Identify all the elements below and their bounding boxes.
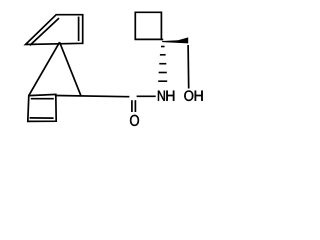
- bond R2 corner to carbonyl C: [56, 96, 129, 97]
- double bond inner line R1 right edge: [78, 17, 80, 41]
- double bond inner line R2 bottom: [30, 117, 54, 119]
- hashed wedge bond (stereocenter to NH), 5 dashes: [161, 46, 165, 48]
- bond carbonyl C to N: [137, 95, 156, 97]
- bond CH2 to OH: [187, 45, 190, 89]
- wedge bond (stereocenter to CH2OH): [162, 37, 188, 43]
- ring R1 (skewed cyclobutadiene, top-left): [26, 15, 83, 45]
- carbonyl C=O double bond: [131, 100, 133, 112]
- label O of OH: [184, 90, 193, 100]
- cyclopropane triangle right side: [60, 42, 81, 96]
- label O carbonyl: [130, 115, 139, 126]
- double bond inner line R2 top: [31, 98, 54, 100]
- ring R3 (cyclobutane square, top-right): [135, 12, 161, 39]
- double bond inner line R1 left diagonal: [30, 18, 59, 45]
- ring R3 bottom edge overshoot at stereocenter corner: [161, 38, 163, 40]
- ring R2 (cyclobutadiene square, bottom-left): [28, 94, 56, 121]
- label H of NH: [166, 91, 174, 101]
- label H of OH: [195, 91, 203, 101]
- cyclopropane triangle left side: [29, 42, 60, 95]
- label N of NH: [158, 91, 165, 101]
